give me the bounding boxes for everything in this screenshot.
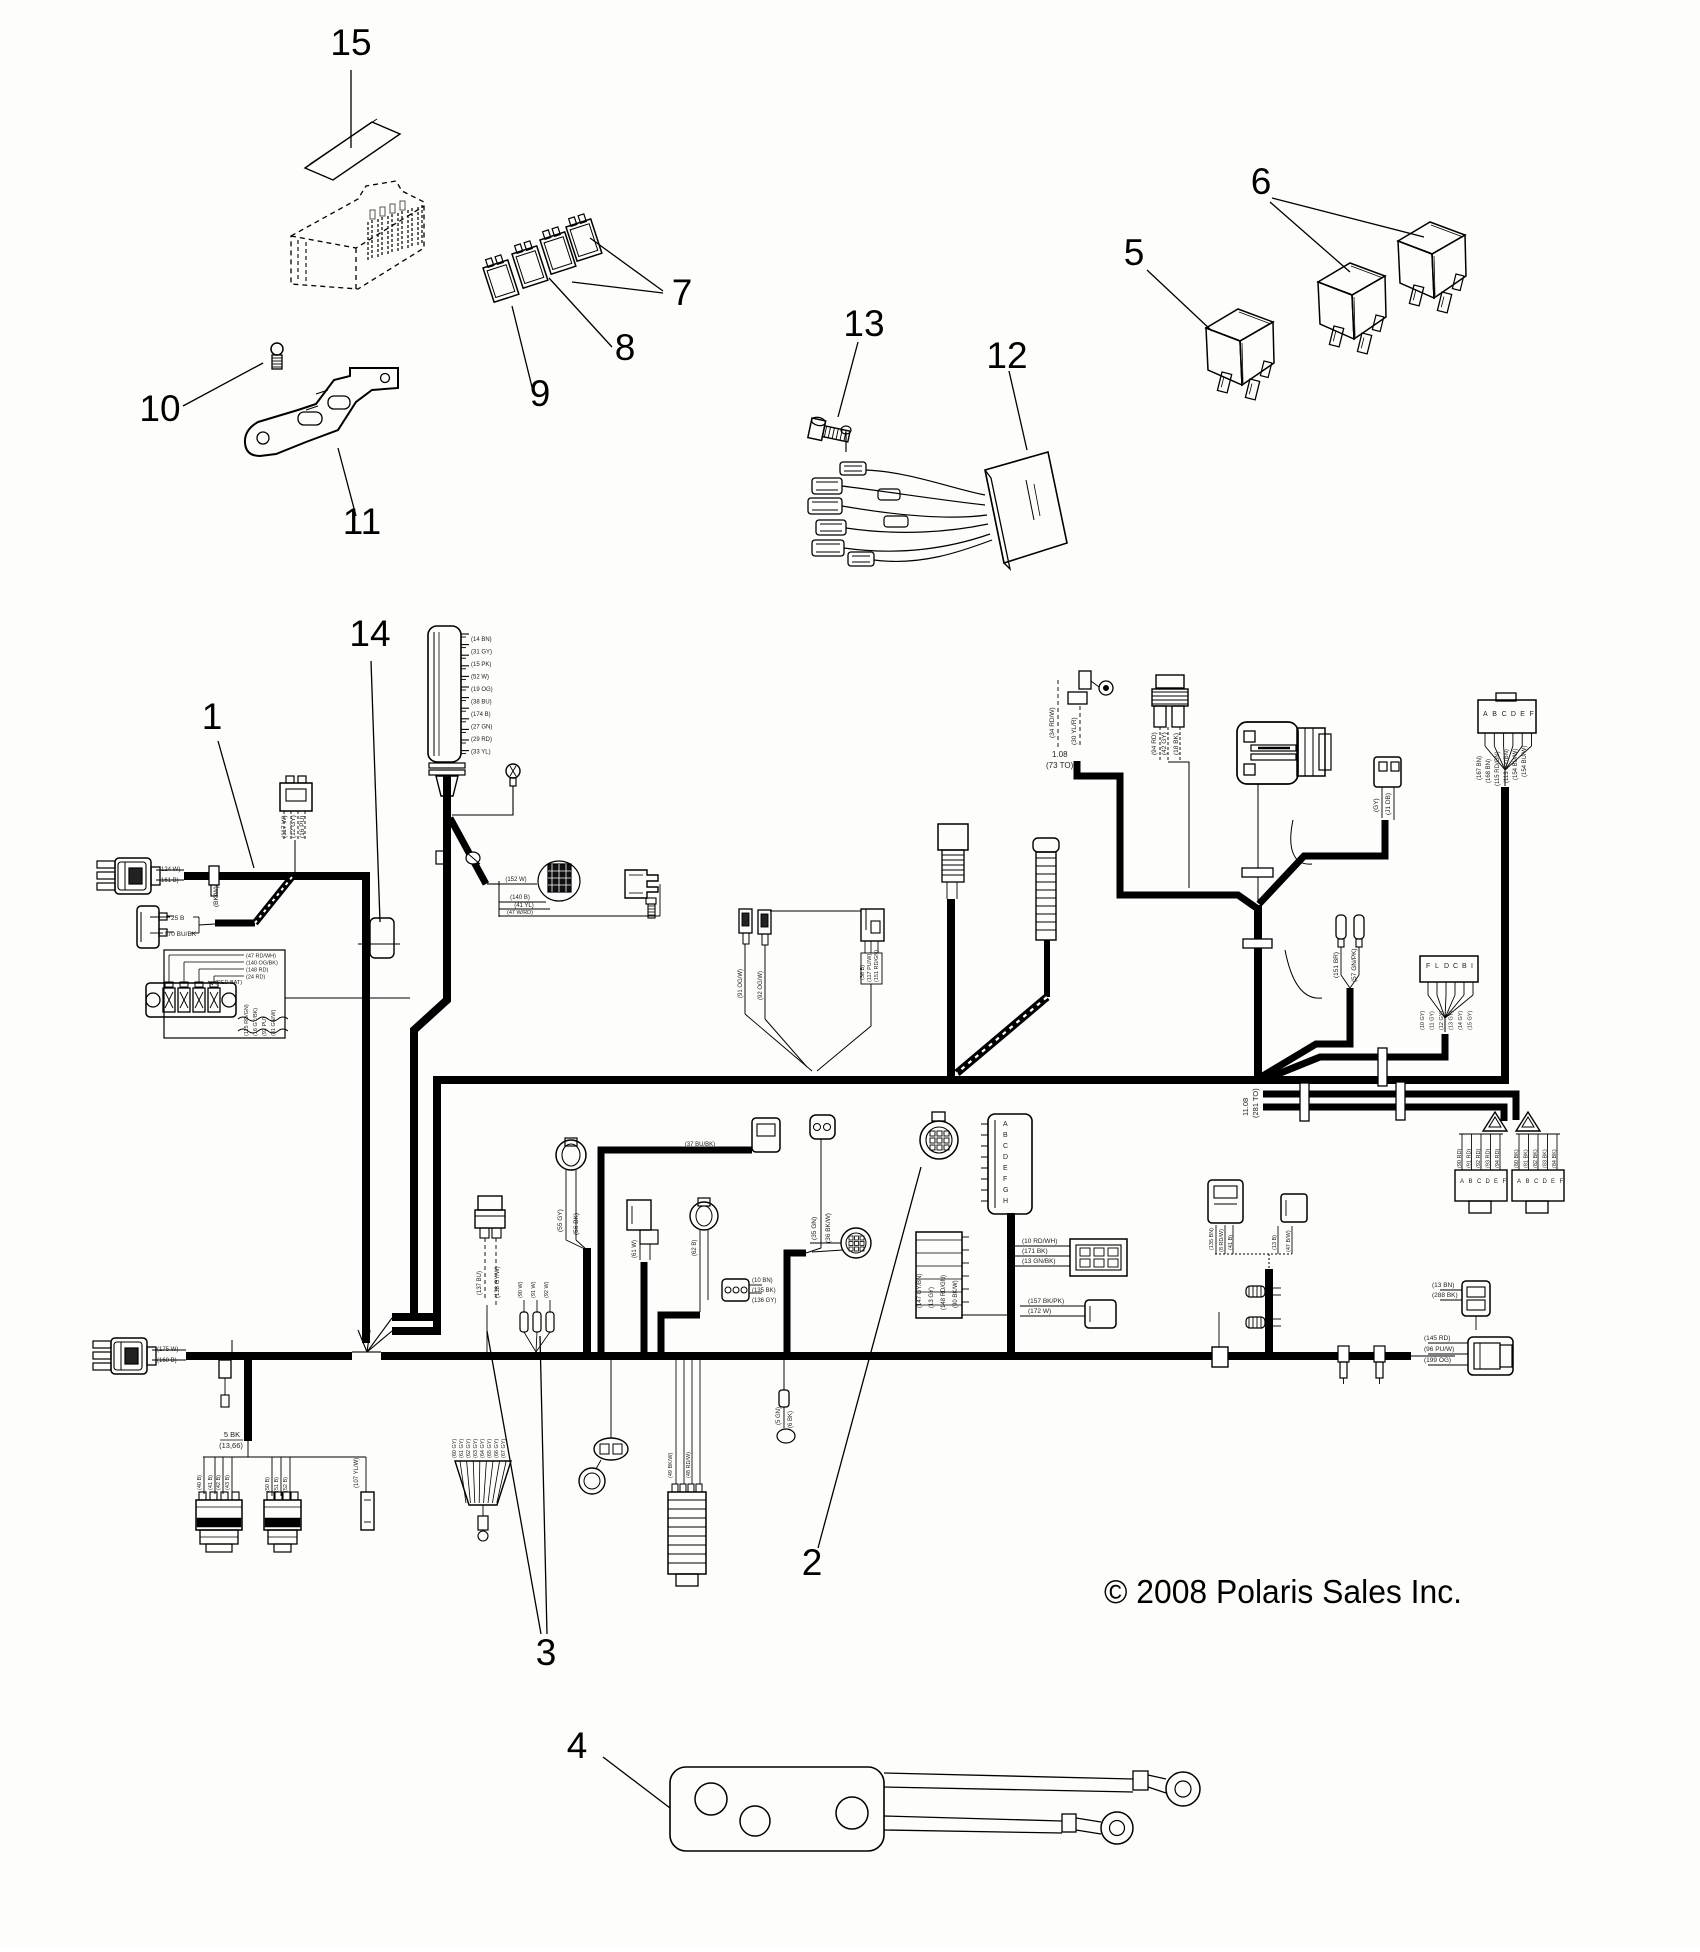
svg-text:(42 B): (42 B) (216, 1475, 222, 1490)
svg-text:(90 BK/W): (90 BK/W) (953, 1280, 959, 1308)
svg-text:(12 GY): (12 GY) (290, 815, 297, 838)
svg-text:6: 6 (1251, 161, 1272, 202)
svg-text:(8 RD/W): (8 RD/W) (1219, 1229, 1225, 1252)
svg-text:(145 RD): (145 RD) (1424, 1335, 1450, 1342)
svg-text:(47 W/RD): (47 W/RD) (507, 910, 533, 916)
svg-text:(11 GY): (11 GY) (1430, 1011, 1436, 1030)
svg-text:2: 2 (802, 1542, 823, 1583)
svg-text:(BK/W): (BK/W) (213, 886, 220, 907)
svg-text:D: D (1486, 1179, 1491, 1185)
svg-text:5 BK: 5 BK (224, 1430, 240, 1439)
svg-text:(84 BK): (84 BK) (1552, 1149, 1558, 1168)
svg-text:(65 GY): (65 GY) (487, 1439, 493, 1458)
svg-text:C: C (1502, 711, 1507, 718)
svg-text:(64 GY): (64 GY) (480, 1439, 486, 1458)
svg-text:I: I (1471, 963, 1473, 970)
svg-text:(147 GY/BN): (147 GY/BN) (917, 1274, 923, 1308)
svg-text:(92 OG/W): (92 OG/W) (758, 971, 764, 1000)
svg-text:(167 BN): (167 BN) (1477, 756, 1483, 780)
svg-text:A: A (1460, 1179, 1464, 1185)
svg-text:(66 GY): (66 GY) (494, 1439, 500, 1458)
svg-text:F: F (1560, 1179, 1564, 1185)
svg-text:(94 RD): (94 RD) (1151, 732, 1158, 755)
svg-text:(137 BU): (137 BU) (477, 1271, 483, 1295)
svg-text:(80 BK): (80 BK) (1514, 1149, 1520, 1168)
svg-text:(57 GN/PK): (57 GN/PK) (1351, 948, 1358, 982)
svg-text:(52 W): (52 W) (471, 675, 489, 681)
svg-text:15: 15 (330, 22, 371, 63)
svg-text:(42 GY): (42 GY) (1161, 732, 1168, 755)
svg-text:(27 GN): (27 GN) (471, 725, 492, 731)
svg-text:(47 RD/WH): (47 RD/WH) (246, 954, 276, 960)
svg-text:(151 RD/GN): (151 RD/GN) (874, 950, 880, 982)
svg-text:(34 RD/W): (34 RD/W) (1049, 707, 1056, 738)
svg-text:C: C (1003, 1143, 1008, 1150)
svg-text:(29 RD): (29 RD) (471, 737, 492, 743)
svg-text:(J1 DB): (J1 DB) (1385, 793, 1392, 815)
svg-text:C: C (1453, 963, 1458, 970)
svg-text:(81 GN/W): (81 GN/W) (271, 1010, 277, 1036)
svg-text:1.08: 1.08 (1052, 750, 1068, 759)
svg-text:H: H (1003, 1198, 1008, 1205)
svg-text:(41 YL): (41 YL) (514, 903, 534, 909)
svg-text:(16 GY/BK): (16 GY/BK) (253, 1008, 259, 1036)
svg-text:25 B: 25 B (171, 915, 184, 922)
svg-text:12: 12 (986, 335, 1027, 376)
svg-text:(13 B): (13 B) (1272, 1235, 1278, 1250)
svg-text:(148 RD/GN): (148 RD/GN) (941, 1275, 947, 1310)
svg-text:D: D (1511, 711, 1516, 718)
svg-text:(81 BK): (81 BK) (1524, 1149, 1530, 1168)
svg-text:(37 BU/BK): (37 BU/BK) (685, 1142, 715, 1148)
svg-text:(91 OG/W): (91 OG/W) (738, 969, 744, 998)
svg-text:(16 PU): (16 PU) (299, 816, 306, 838)
svg-text:(40 B): (40 B) (197, 1475, 203, 1490)
svg-text:(73 TO): (73 TO) (1046, 761, 1074, 770)
svg-text:(41 B): (41 B) (208, 1475, 214, 1490)
svg-text:E: E (1003, 1165, 1008, 1172)
svg-text:(83 BK): (83 BK) (1543, 1149, 1549, 1168)
svg-text:(174 B): (174 B) (471, 712, 491, 718)
svg-text:(56 BK): (56 BK) (573, 1213, 580, 1235)
svg-text:(6 BK): (6 BK) (788, 1411, 794, 1428)
svg-text:(52 B): (52 B) (283, 1477, 289, 1492)
svg-text:(50 B): (50 B) (265, 1477, 271, 1492)
svg-text:(199 OG): (199 OG) (1424, 1357, 1451, 1364)
svg-text:(35 GN): (35 GN) (811, 1217, 818, 1240)
svg-text:(140 OG/BK): (140 OG/BK) (246, 961, 278, 967)
svg-text:B: B (1003, 1132, 1008, 1139)
svg-text:11.08: 11.08 (1241, 1098, 1250, 1116)
svg-text:13: 13 (843, 303, 884, 344)
svg-text:(63 GY): (63 GY) (473, 1439, 479, 1458)
svg-text:(113 GY/BN): (113 GY/BN) (1504, 749, 1510, 783)
svg-text:(90 RD): (90 RD) (1457, 1149, 1463, 1168)
svg-text:(14 GY): (14 GY) (1458, 1011, 1464, 1030)
svg-text:B: B (1526, 1179, 1530, 1185)
svg-text:(RED BAT): (RED BAT) (215, 980, 242, 986)
svg-text:(91 W): (91 W) (531, 1281, 537, 1298)
svg-text:(92 RD): (92 RD) (1476, 1149, 1482, 1168)
svg-text:(172 W): (172 W) (1028, 1308, 1051, 1315)
svg-text:(168 BN): (168 BN) (1486, 759, 1492, 783)
svg-text:(136 GY): (136 GY) (752, 1298, 776, 1304)
svg-text:(38 BU): (38 BU) (471, 700, 492, 706)
svg-text:(93 RD): (93 RD) (1486, 1149, 1492, 1168)
svg-text:(138 GY/W): (138 GY/W) (495, 1266, 501, 1298)
svg-text:(13 GY): (13 GY) (929, 1287, 935, 1308)
svg-text:L: L (1435, 963, 1439, 970)
svg-text:(47 B/W): (47 B/W) (1286, 1230, 1292, 1252)
svg-text:(62 GY): (62 GY) (466, 1439, 472, 1458)
svg-text:(5 GN): (5 GN) (776, 1407, 782, 1425)
svg-text:(140 B): (140 B) (510, 895, 530, 901)
svg-text:(15 GY): (15 GY) (1468, 1011, 1474, 1030)
svg-text:B: B (1462, 963, 1467, 970)
svg-text:(154 BU/W): (154 BU/W) (1513, 749, 1519, 780)
svg-text:(15 PK): (15 PK) (471, 662, 491, 668)
svg-text:(31 GY): (31 GY) (471, 650, 492, 656)
svg-text:F: F (1426, 963, 1430, 970)
svg-text:D: D (1003, 1154, 1008, 1161)
svg-text:E: E (1494, 1179, 1498, 1185)
svg-text:(107 YL/W): (107 YL/W) (354, 1458, 360, 1488)
svg-text:5: 5 (1124, 232, 1145, 273)
svg-text:(61 GY): (61 GY) (459, 1439, 465, 1458)
svg-text:1: 1 (202, 696, 223, 737)
svg-text:(281 TO): (281 TO) (1251, 1088, 1260, 1118)
svg-text:9: 9 (530, 373, 551, 414)
svg-text:F: F (1503, 1179, 1507, 1185)
svg-text:(92 W): (92 W) (544, 1281, 550, 1298)
svg-text:(36 B): (36 B) (860, 965, 866, 980)
svg-text:(10 BN): (10 BN) (752, 1278, 773, 1284)
svg-text:(61 W): (61 W) (632, 1240, 638, 1258)
svg-text:(12 GY): (12 GY) (1439, 1011, 1445, 1030)
svg-text:(160 B): (160 B) (157, 1358, 177, 1364)
svg-text:(51 B): (51 B) (274, 1477, 280, 1492)
svg-text:(GY): (GY) (1373, 798, 1380, 812)
svg-text:(19 OG): (19 OG) (471, 687, 493, 693)
svg-text:B: B (1492, 711, 1497, 718)
svg-text:D: D (1543, 1179, 1548, 1185)
svg-text:(13 GN/BK): (13 GN/BK) (1022, 1258, 1056, 1265)
svg-text:8: 8 (615, 327, 636, 368)
svg-text:(288 BK): (288 BK) (1432, 1292, 1458, 1299)
svg-text:(151 BR): (151 BR) (1333, 952, 1340, 978)
svg-text:(90 W): (90 W) (518, 1281, 524, 1298)
svg-text:(43 B): (43 B) (225, 1475, 231, 1490)
svg-text:F: F (1530, 711, 1534, 718)
svg-text:A: A (1517, 1179, 1521, 1185)
svg-text:(117 PU/W): (117 PU/W) (867, 954, 873, 982)
svg-text:C: C (1534, 1179, 1539, 1185)
svg-text:© 2008 Polaris Sales Inc.: © 2008 Polaris Sales Inc. (1104, 1573, 1462, 1610)
svg-text:(94 RD): (94 RD) (1495, 1149, 1501, 1168)
svg-text:7: 7 (672, 272, 693, 313)
svg-text:F: F (1003, 1176, 1007, 1183)
svg-text:170 BU/BK: 170 BU/BK (164, 931, 197, 938)
svg-text:G: G (1003, 1187, 1008, 1194)
svg-text:(82 BK): (82 BK) (1533, 1149, 1539, 1168)
svg-text:(24 RD): (24 RD) (246, 975, 265, 981)
svg-text:11: 11 (343, 501, 381, 542)
svg-text:(154 BU/W): (154 BU/W) (1522, 746, 1528, 777)
svg-text:(92 PU): (92 PU) (262, 1017, 268, 1036)
svg-text:(148 RD): (148 RD) (246, 968, 268, 974)
svg-text:(36 BK/W): (36 BK/W) (825, 1213, 832, 1243)
svg-text:(115 RD/GN): (115 RD/GN) (244, 1004, 250, 1036)
svg-text:E: E (1520, 711, 1525, 718)
svg-text:(171 BK): (171 BK) (1022, 1248, 1048, 1255)
svg-text:B: B (1469, 1179, 1473, 1185)
svg-text:(10 RD/WH): (10 RD/WH) (1022, 1238, 1057, 1245)
svg-text:A: A (1483, 711, 1488, 718)
svg-text:(55 GY): (55 GY) (557, 1209, 564, 1232)
svg-text:(14 BN): (14 BN) (471, 637, 492, 643)
svg-text:C: C (1477, 1179, 1482, 1185)
svg-text:(115 RD/GN): (115 RD/GN) (1495, 751, 1501, 786)
svg-text:(62 B): (62 B) (692, 1240, 698, 1256)
svg-text:(33 YL): (33 YL) (471, 750, 491, 756)
svg-text:4: 4 (567, 1725, 588, 1766)
svg-text:(117 W): (117 W) (281, 815, 288, 838)
svg-text:(18 BK): (18 BK) (1173, 733, 1180, 755)
svg-text:(157 BK/PK): (157 BK/PK) (1028, 1298, 1064, 1305)
svg-text:(91 RD): (91 RD) (1467, 1149, 1473, 1168)
svg-text:(30 YL/R): (30 YL/R) (1071, 717, 1078, 745)
svg-text:(13 GY): (13 GY) (1449, 1011, 1455, 1030)
svg-text:(49 BK/W): (49 BK/W) (668, 1452, 674, 1478)
svg-text:10: 10 (139, 388, 180, 429)
svg-text:(152 W): (152 W) (505, 877, 526, 883)
svg-text:(13,66): (13,66) (219, 1441, 243, 1450)
svg-text:(96 PU/W): (96 PU/W) (1424, 1346, 1454, 1353)
svg-text:(41 B): (41 B) (1228, 1235, 1234, 1250)
svg-text:D: D (1444, 963, 1449, 970)
svg-text:14: 14 (349, 613, 390, 654)
svg-text:(60 GY): (60 GY) (452, 1439, 458, 1458)
svg-text:(135 BN): (135 BN) (1209, 1228, 1215, 1250)
svg-text:3: 3 (536, 1632, 557, 1673)
svg-text:E: E (1551, 1179, 1555, 1185)
svg-text:(10 GY): (10 GY) (1420, 1011, 1426, 1030)
svg-text:(13 BN): (13 BN) (1432, 1282, 1454, 1289)
svg-text:(135 BK): (135 BK) (752, 1288, 776, 1294)
svg-text:(161 B): (161 B) (159, 878, 179, 884)
svg-text:(48 RD/W): (48 RD/W) (686, 1452, 692, 1478)
svg-text:A: A (1003, 1121, 1008, 1128)
